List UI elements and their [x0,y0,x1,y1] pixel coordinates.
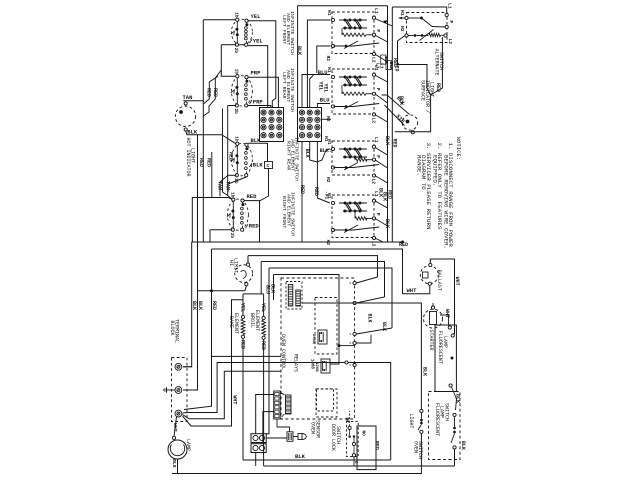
infinite switch RF wiper [227,214,231,218]
wire H1-S1 feed [307,20,330,108]
wire T3 fan 3 [183,371,282,419]
svg-text:RED: RED [198,158,204,167]
surface indicator bracket wire [395,95,431,132]
wire B bottom run [228,105,237,107]
svg-text:RED: RED [205,88,211,97]
svg-text:SENSOR: SENSOR [315,420,321,438]
junction dots bus [210,289,213,292]
alternate switch terminal L1 [445,13,448,16]
wire indicator diag 1 [385,105,405,126]
terminal T1 [175,363,182,370]
wire L2-S2 diag [375,115,388,123]
wire T3 fan 4 to bake [183,300,244,426]
wire cluster D feed diag [228,198,232,200]
junction dot fluorescent [451,357,454,360]
ballast [420,266,438,284]
fluorescent lamp pin c [449,384,452,387]
svg-text:BLK: BLK [171,459,177,468]
wire label BLK RR lower [250,163,253,167]
door lock outer box [357,426,376,470]
svg-text:LEFT FRONT: LEFT FRONT [281,15,287,44]
element RR terminal bottom [245,174,248,177]
terminal L1 S1 [372,16,375,19]
svg-text:LAMP: LAMP [185,439,191,451]
svg-text:WHT: WHT [232,395,238,404]
svg-text:1b: 1b [233,136,238,142]
svg-text:2b: 2b [233,109,238,115]
svg-text:1b: 1b [233,12,238,18]
oven control connector strip [274,391,281,419]
fluorescent lamp switch box [429,392,461,460]
wire indicator diag 2 [382,95,410,115]
wire lamp bottom [172,459,178,474]
wire label PRP LR lower [250,100,253,104]
oven sensor bulb [293,436,298,438]
surface indicator light [402,115,417,130]
svg-text:BLK: BLK [384,136,390,145]
svg-text:H2: H2 [325,116,331,122]
wire TB2 col3 down [317,142,329,204]
svg-text:H1: H1 [399,10,405,16]
infinite switch RF terminal 1b [232,198,235,201]
wire L1-S1 diag [375,19,393,27]
svg-text:L1: L1 [447,3,453,9]
fluorescent switch contacts [453,413,456,416]
switch blade S4 [334,229,354,231]
svg-text:P: P [375,155,381,158]
wire L2-S1 diag [375,54,388,62]
surface switch box S1 [332,12,374,54]
hot indicator light [175,106,195,126]
wire RED-D right run [244,201,259,242]
infinite switch RR terminal 1b [236,142,239,145]
element LR coil [246,79,248,82]
wire D bottom run [210,229,232,231]
svg-text:P: P [448,21,454,24]
fluorescent lamp pin b [451,334,454,337]
svg-text:H2: H2 [399,26,405,32]
svg-text:LIGHT: LIGHT [429,82,435,97]
infinite switch RF terminal 2b [231,228,234,231]
wire oc terminal 343 lead [356,335,371,344]
svg-text:BLK: BLK [295,453,306,460]
svg-text:RED: RED [299,185,305,194]
element LF coil [246,22,248,25]
svg-text:LIMIT: LIMIT [233,258,239,273]
svg-text:H2: H2 [325,56,331,62]
infinite switch LR terminal 1b [236,75,239,78]
infinite switch LR contact line [236,78,238,104]
wire YEL-A right run [248,21,276,108]
bus top horizontal 1 [298,5,388,7]
wire TB2 col2 up [310,75,314,108]
oven control terminal y283 [353,281,356,284]
switch heater S1 [342,33,366,36]
wire TAN to hot light [183,100,203,102]
svg-text:L1: L1 [379,63,385,69]
element RR terminal top [245,143,248,146]
wire blu drop to outlet [266,268,269,434]
svg-text:RED: RED [387,190,393,199]
svg-text:YEL: YEL [251,13,262,20]
svg-text:BLK:: BLK: [320,148,332,154]
svg-text:BLK: BLK [381,322,387,331]
svg-text:STARTER: STARTER [428,330,434,351]
terminal H2 S1 lower [331,44,334,47]
wire BLK hot light bottom [186,131,236,144]
svg-text:RED: RED [247,193,258,200]
svg-text:RELAYS: RELAYS [293,354,299,372]
wire hi limit top [247,256,249,263]
alternate switch terminal P [445,25,448,28]
svg-text:RED: RED [206,158,212,167]
element LF terminal top [245,19,248,22]
svg-text:WHT: WHT [407,287,418,294]
wire L1-S3 diag [375,147,388,155]
relay coil 1 [288,285,293,307]
starter [424,309,443,328]
svg-text:NC: NC [344,418,349,424]
svg-text:2b: 2b [229,233,234,239]
svg-text:BLK: BLK [269,284,275,293]
label BLK bus a boxed [381,55,386,64]
alternate switch heater [429,33,441,36]
svg-text:RED: RED [249,223,260,230]
wire starter right pin [440,315,449,326]
bus lower y268 [269,268,392,328]
fluorescent lamp pin a [448,326,451,329]
infinite switch LF body [231,19,252,45]
terminal L2 S2 [372,113,375,116]
svg-text:RED: RED [373,441,379,450]
alternate switch contacts [420,17,423,20]
terminal P S4 [372,217,375,220]
oven control terminal y365 [353,363,356,366]
infinite switch LR terminal 2b [235,104,238,107]
connector label block [286,395,292,414]
terminal H2 S4 lower [331,228,334,231]
switch contacts S4 [339,202,367,204]
svg-text:TAN: TAN [224,181,230,190]
svg-text:1408: 1408 [309,359,313,370]
svg-text:RIGHT FRONT: RIGHT FRONT [281,196,287,228]
wire y242 corner to ballast [403,242,431,259]
bus vertical x387.5 [387,6,389,242]
wire oc terminal 303 diag [356,297,384,303]
terminal H1 S1 [331,18,334,21]
svg-text:NOTICE:: NOTICE: [455,137,462,161]
terminal P S3 [372,158,375,161]
infinite switch LF terminal 1b [236,18,239,21]
svg-text:TAN: TAN [183,94,193,101]
element RR coil [246,146,248,149]
wire L1-S4 diag [375,201,388,208]
svg-text:RED: RED [435,83,441,92]
bus lower y249 [212,249,403,294]
relay coil 2 [296,290,301,306]
oven control terminal y334 [353,332,356,335]
bus top vertical x297.6 [297,6,299,108]
element LF terminal bottom [245,43,248,46]
oven light switch contacts [420,409,423,412]
wire outlet to sensor [266,437,287,439]
svg-text:LAMP: LAMP [442,336,448,348]
wire TB2 col1 down [301,142,303,243]
svg-text:BLOCK: BLOCK [169,321,175,336]
broil element [262,316,265,319]
wire strip feed b [263,412,274,444]
svg-text:YEL: YEL [323,84,329,93]
wire broil bottom down [263,339,265,466]
door lock contact box [347,421,359,456]
svg-text:C: C [267,164,270,169]
wire B element bottom right [248,106,271,108]
terminal block TB2 [298,108,322,142]
wire C bottom run [228,174,236,176]
infinite switch LF terminal 2b [235,43,238,46]
surface switch box S3 [332,141,374,175]
svg-text:BLK: BLK [384,219,390,228]
wire PRP-B right run [248,77,278,107]
svg-text:H1: H1 [326,193,332,199]
svg-text:1b: 1b [229,192,234,198]
wire L2-S4 diag [375,238,383,242]
svg-text:1b: 1b [233,69,238,75]
svg-text:BLK: BLK [187,129,198,136]
svg-text:RED: RED [211,301,217,310]
wire hi limit bottom [245,286,246,291]
bus lower y274.5 [274,275,340,346]
wire oc terminal 334 diag [356,328,392,334]
hi limit thermostat [235,265,253,283]
infinite switch RR contact line [236,145,238,173]
wire door lock C down [353,457,355,466]
infinite switch LR wiper [231,90,235,94]
svg-text:WHT: WHT [454,277,460,286]
svg-text:L2: L2 [370,179,376,185]
infinite switch RR terminal 2b [235,174,238,177]
wire relay junction leads [331,346,340,364]
wire T1 lead [183,366,192,368]
door lock inner box [317,389,334,411]
wire L1-S2 diag [375,75,388,82]
svg-text:TAN: TAN [216,181,222,190]
switch heater S4 [355,217,367,220]
infinite switch LF wiper [231,31,235,35]
svg-text:PRP: PRP [251,69,262,76]
wire hi-limit to T2 via y290.8 [183,291,245,390]
oven control box [281,278,355,419]
svg-text:SWITCH: SWITCH [335,426,341,444]
wire bottom y460 [243,459,391,461]
outlet block 1 [251,434,266,443]
terminal H2 S2 lower [331,105,334,108]
bus lower y261.5 [261,262,384,298]
svg-text:BLK: BLK [367,314,373,323]
svg-text:BLK: BLK [422,367,428,376]
wire RED pair weave [203,76,218,104]
switch heater S2 [342,92,366,95]
svg-text:RED: RED [313,187,319,196]
terminal L2 S1 [372,52,375,55]
terminal P S2 [372,92,375,95]
svg-text:SWITCH: SWITCH [443,403,449,421]
connector bracket [282,393,285,395]
svg-text:RED: RED [227,152,233,161]
switch contacts S2 [339,76,367,78]
svg-text:NO: NO [361,431,366,437]
svg-text:H2: H2 [325,177,331,183]
svg-text:H1: H1 [326,139,332,145]
svg-text:BLU: BLU [320,97,330,104]
bake element [241,315,244,318]
alternate switch terminal H2 [405,34,408,37]
alternate switch terminal L2 [444,34,447,37]
surface switch box S4 [332,195,374,238]
wire starter top [432,303,434,306]
svg-text:L2: L2 [370,57,376,63]
terminal L1 S4 [372,199,375,202]
svg-text:YEL: YEL [253,38,264,45]
relay coil box [286,282,302,310]
svg-text:OVEN CONTROL: OVEN CONTROL [280,334,286,370]
wire BLK light drop x197.5 [197,135,199,291]
wire bottom y473.5 [172,473,422,475]
relay contact box A [315,298,337,355]
infinite switch LR body [231,76,252,106]
wire TB2 col1 up [302,75,330,108]
terminal T2 [175,387,182,394]
terminal block body [172,358,188,422]
fluorescent lamp box [435,325,456,392]
wire A to B left drop [221,45,235,76]
bus top horizontal 2 to alternate L1 [392,7,446,13]
wire ballast top to fluorescent [430,259,454,334]
svg-text:PRP: PRP [253,99,264,106]
terminal L1 S2 [372,73,375,76]
junction dot relay out [338,344,341,347]
switch blade S3 [334,167,354,169]
svg-text:LIGHT: LIGHT [190,148,196,163]
bus vertical x392.3 [391,7,393,242]
door lock contacts [348,426,351,429]
svg-text:RED: RED [393,63,399,72]
wire P-S3 diag [375,160,388,168]
svg-text:RIGHT REAR: RIGHT REAR [286,141,292,170]
connector C box [265,162,273,169]
element LR terminal top [245,76,248,79]
relay contact B [321,359,330,373]
element RF terminal top [241,199,244,202]
wire door lock NC up [349,411,351,426]
bus lower y255.6 [248,256,378,277]
wire left bus x203 [202,20,204,242]
svg-text:BLK: BLK [197,301,203,310]
infinite switch RF body [227,199,248,230]
switch heater S3 [355,158,367,161]
infinite switch RF contact line [232,201,234,228]
wire left vertical to T1 [183,242,192,367]
wire TB2 col2 down [310,142,330,163]
switch blade S1 [334,45,354,47]
oven control terminal y343 [353,341,356,344]
terminal block TB1 [260,108,284,142]
alternate switch box [407,13,448,43]
wire fluorescent switch bottom [454,449,456,466]
wire alternate L2 down [431,37,443,95]
terminal L2 S3 [372,174,375,177]
switch contacts S1 [339,19,367,21]
svg-text:L1: L1 [373,8,379,14]
svg-text:BLK: BLK [191,301,197,310]
element RF terminal bottom [241,228,244,231]
wire H2-S1 to BLU ladder [317,46,331,73]
svg-text:RANGE.: RANGE. [416,155,423,176]
element LR terminal bottom [245,104,248,107]
infinite switch RR wiper [231,159,235,163]
svg-text:RED: RED [391,139,397,148]
wire BLK-C right run [248,143,267,161]
svg-text:BLK: BLK [253,162,264,169]
wire alternate to indicator [398,36,431,96]
switch blade S2 [334,106,354,108]
wire oc terminal 283 diag [356,277,377,283]
svg-text:BLK: BLK [304,149,310,158]
svg-text:BLK: BLK [296,46,302,55]
relay contact box B [316,389,337,417]
svg-text:L1: L1 [373,137,379,143]
wire outlet2 down [255,453,257,467]
svg-text:240B: 240B [311,334,315,344]
svg-text:P: P [375,213,381,216]
wire label YEL LF lower [250,39,253,43]
wire strip to sensor [277,419,290,432]
wire cluster A top feed [203,19,235,21]
wire oc 303 to oven light switch [302,303,421,411]
wire arrow to S1 [383,20,388,23]
svg-text:120B: 120B [314,362,318,372]
wire L2-S3 diag [375,176,388,184]
oven control terminal y303 [353,301,356,304]
svg-text:L2: L2 [370,118,376,124]
terminal T3 [175,410,182,417]
svg-text:SWITCH: SWITCH [438,52,444,70]
wire junction y293.9 [243,293,264,295]
element RF coil [242,202,244,205]
terminal H1 S2 [331,75,334,78]
terminal L2 S4 [372,236,375,239]
svg-text:H1: H1 [326,67,332,73]
wire T3 to lamp [174,417,177,437]
terminal P S1 [372,33,375,36]
wire bottom y466 [264,465,455,467]
wire x211.8 texture [211,152,213,198]
terminal H2 S3 lower [331,166,334,169]
wire strip feed a [256,395,274,434]
svg-text:2b: 2b [233,48,238,54]
svg-text:ELEMENT: ELEMENT [254,310,260,331]
wire fluorescent pin blade [452,387,457,410]
terminal H1 S4 [331,201,334,204]
svg-text:ELEMENT: ELEMENT [233,313,239,334]
svg-text:H1: H1 [326,10,332,16]
wire at x273.5 [273,275,275,306]
wire left bus x192 to cluster D [192,198,228,243]
svg-text:P: P [375,29,381,32]
terminal L1 S3 [372,145,375,148]
wire TB2 row2 stub [322,118,332,120]
oven lamp [168,440,187,459]
